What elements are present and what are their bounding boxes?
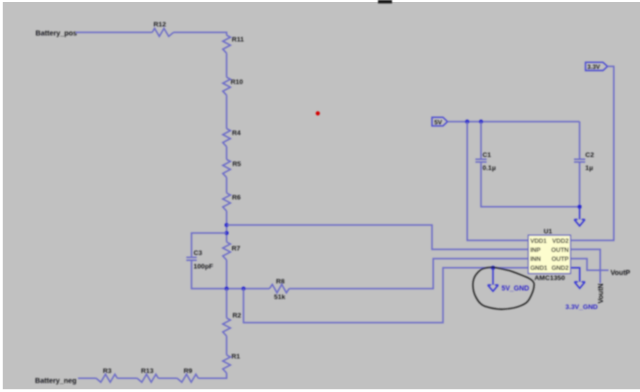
wire ground stem 5V_GND bbox=[492, 268, 494, 285]
wire GND2 stem bbox=[571, 268, 580, 282]
svg-text:0.1µ: 0.1µ bbox=[482, 165, 495, 172]
svg-text:VoutN: VoutN bbox=[598, 283, 605, 303]
wire R11 to R10 bbox=[226, 53, 228, 77]
resistor R13 bbox=[137, 374, 158, 382]
svg-text:AMC1350: AMC1350 bbox=[534, 275, 565, 282]
svg-text:5V: 5V bbox=[434, 119, 443, 126]
svg-text:C2: C2 bbox=[585, 152, 594, 159]
svg-text:VoutP: VoutP bbox=[611, 270, 631, 277]
svg-text:R4: R4 bbox=[232, 130, 241, 137]
wire R5 to R6 bbox=[226, 177, 228, 193]
red probe dot bbox=[316, 111, 320, 115]
wire 3.3V to VDD2 pin bbox=[571, 66, 614, 240]
svg-text:3.3V: 3.3V bbox=[587, 64, 601, 71]
wire R8 to INN pin bbox=[289, 259, 528, 289]
hand-drawn ellipse around 5V_GND bbox=[473, 267, 534, 309]
svg-text:INN: INN bbox=[530, 256, 541, 263]
wire 5V to VDD1 pin bbox=[467, 122, 528, 241]
svg-text:OUTP: OUTP bbox=[551, 256, 568, 263]
node junction to C3 bbox=[225, 231, 229, 235]
cropped black UI fragment at top edge bbox=[378, 0, 392, 3]
svg-text:GND2: GND2 bbox=[551, 265, 569, 272]
svg-text:5V_GND: 5V_GND bbox=[502, 286, 530, 293]
wire R6 down through nodes to R7 bbox=[226, 211, 228, 242]
bottom rail wire to R8 bbox=[227, 288, 270, 290]
resistor R1 bbox=[223, 355, 231, 373]
resistor R7 bbox=[223, 242, 231, 260]
wire R9 to R13 bbox=[158, 377, 177, 379]
svg-text:3.3V_GND: 3.3V_GND bbox=[565, 304, 598, 311]
svg-text:VDD1: VDD1 bbox=[530, 238, 547, 245]
node junction C1 branch bbox=[479, 120, 483, 124]
ground symbol cap rail bbox=[574, 220, 585, 226]
wire 5V rail bbox=[448, 121, 580, 123]
wire C2 bottom bbox=[579, 162, 581, 207]
svg-text:R13: R13 bbox=[141, 368, 154, 375]
wire rail to R2 bbox=[226, 289, 228, 318]
svg-text:Battery_neg: Battery_neg bbox=[35, 376, 77, 385]
resistor R6 bbox=[223, 193, 231, 211]
node junction to INP bbox=[225, 223, 229, 227]
capacitor C1 bbox=[475, 159, 486, 162]
node junction VDD1 branch bbox=[465, 120, 469, 124]
wire R1 corner to R9 bbox=[198, 373, 226, 378]
svg-text:INP: INP bbox=[530, 247, 540, 254]
resistor R2 bbox=[223, 318, 231, 336]
wire OUTN to VoutN bbox=[571, 249, 601, 283]
resistor R12 bbox=[152, 28, 173, 36]
svg-text:R3: R3 bbox=[103, 368, 112, 375]
svg-text:OUTN: OUTN bbox=[551, 247, 569, 254]
op-amp U1 body bbox=[528, 235, 570, 273]
wire R2 to R1 bbox=[226, 336, 228, 355]
svg-text:U1: U1 bbox=[544, 228, 553, 235]
svg-text:100pF: 100pF bbox=[194, 263, 214, 270]
wire 5V to C1 top bbox=[480, 122, 482, 159]
svg-text:R7: R7 bbox=[232, 245, 241, 252]
svg-text:R11: R11 bbox=[232, 37, 244, 44]
svg-text:R9: R9 bbox=[184, 368, 193, 375]
svg-text:51k: 51k bbox=[274, 294, 286, 301]
wire R13 to R3 bbox=[117, 377, 137, 379]
capacitor C2 bbox=[574, 159, 585, 162]
wire R12 to R11 corner bbox=[173, 32, 226, 35]
net flag 5V bbox=[432, 117, 448, 126]
wire ground stem cap rail bbox=[579, 207, 581, 220]
wire C3 bottom to rail bbox=[192, 260, 227, 288]
wire 5V to C2 top bbox=[579, 122, 581, 159]
node junction cap rail ground bbox=[578, 205, 582, 209]
svg-text:Battery_pos: Battery_pos bbox=[36, 28, 78, 37]
resistor R5 bbox=[223, 159, 231, 177]
node junction 5V_GND bbox=[491, 266, 495, 270]
svg-text:R12: R12 bbox=[154, 21, 167, 28]
ground symbol 3.3V_GND bbox=[574, 282, 585, 288]
svg-text:R5: R5 bbox=[232, 161, 241, 168]
resistor R9 bbox=[177, 374, 198, 382]
wire R7 to bottom rail bbox=[226, 260, 228, 289]
svg-text:GND1: GND1 bbox=[530, 265, 548, 272]
resistor R3 bbox=[96, 374, 117, 382]
node junction rail GND branch bbox=[242, 287, 246, 291]
wire R10 to R4 bbox=[226, 95, 228, 128]
wire Battery_pos to R12 bbox=[76, 31, 152, 33]
svg-text:1µ: 1µ bbox=[585, 165, 593, 172]
resistor R11 bbox=[223, 35, 231, 53]
wire GND net loop to GND1 pin bbox=[244, 268, 529, 323]
capacitor C3 bbox=[186, 257, 196, 260]
svg-text:R10: R10 bbox=[231, 79, 244, 86]
svg-text:R1: R1 bbox=[231, 353, 240, 360]
svg-text:R2: R2 bbox=[233, 313, 242, 320]
wire C1 bottom rail bbox=[481, 162, 580, 207]
resistor R10 bbox=[223, 77, 231, 95]
net flag 3.3V bbox=[586, 62, 608, 70]
wire R4 to R5 bbox=[226, 147, 228, 160]
wire R3 to Battery_neg bbox=[78, 377, 96, 379]
svg-text:C1: C1 bbox=[482, 152, 491, 159]
svg-text:VDD2: VDD2 bbox=[552, 238, 569, 245]
wire OUTP to VoutP bbox=[571, 259, 609, 271]
resistor R8 bbox=[270, 284, 290, 292]
wire divider tap to INP pin bbox=[227, 225, 529, 249]
svg-text:R8: R8 bbox=[276, 279, 285, 286]
node junction rail R7 bbox=[225, 287, 229, 291]
svg-text:C3: C3 bbox=[194, 250, 203, 257]
resistor R4 bbox=[223, 129, 231, 147]
wire node to C3 top bbox=[192, 233, 227, 257]
ground symbol 5V_GND bbox=[488, 285, 499, 291]
svg-text:R6: R6 bbox=[232, 195, 241, 202]
